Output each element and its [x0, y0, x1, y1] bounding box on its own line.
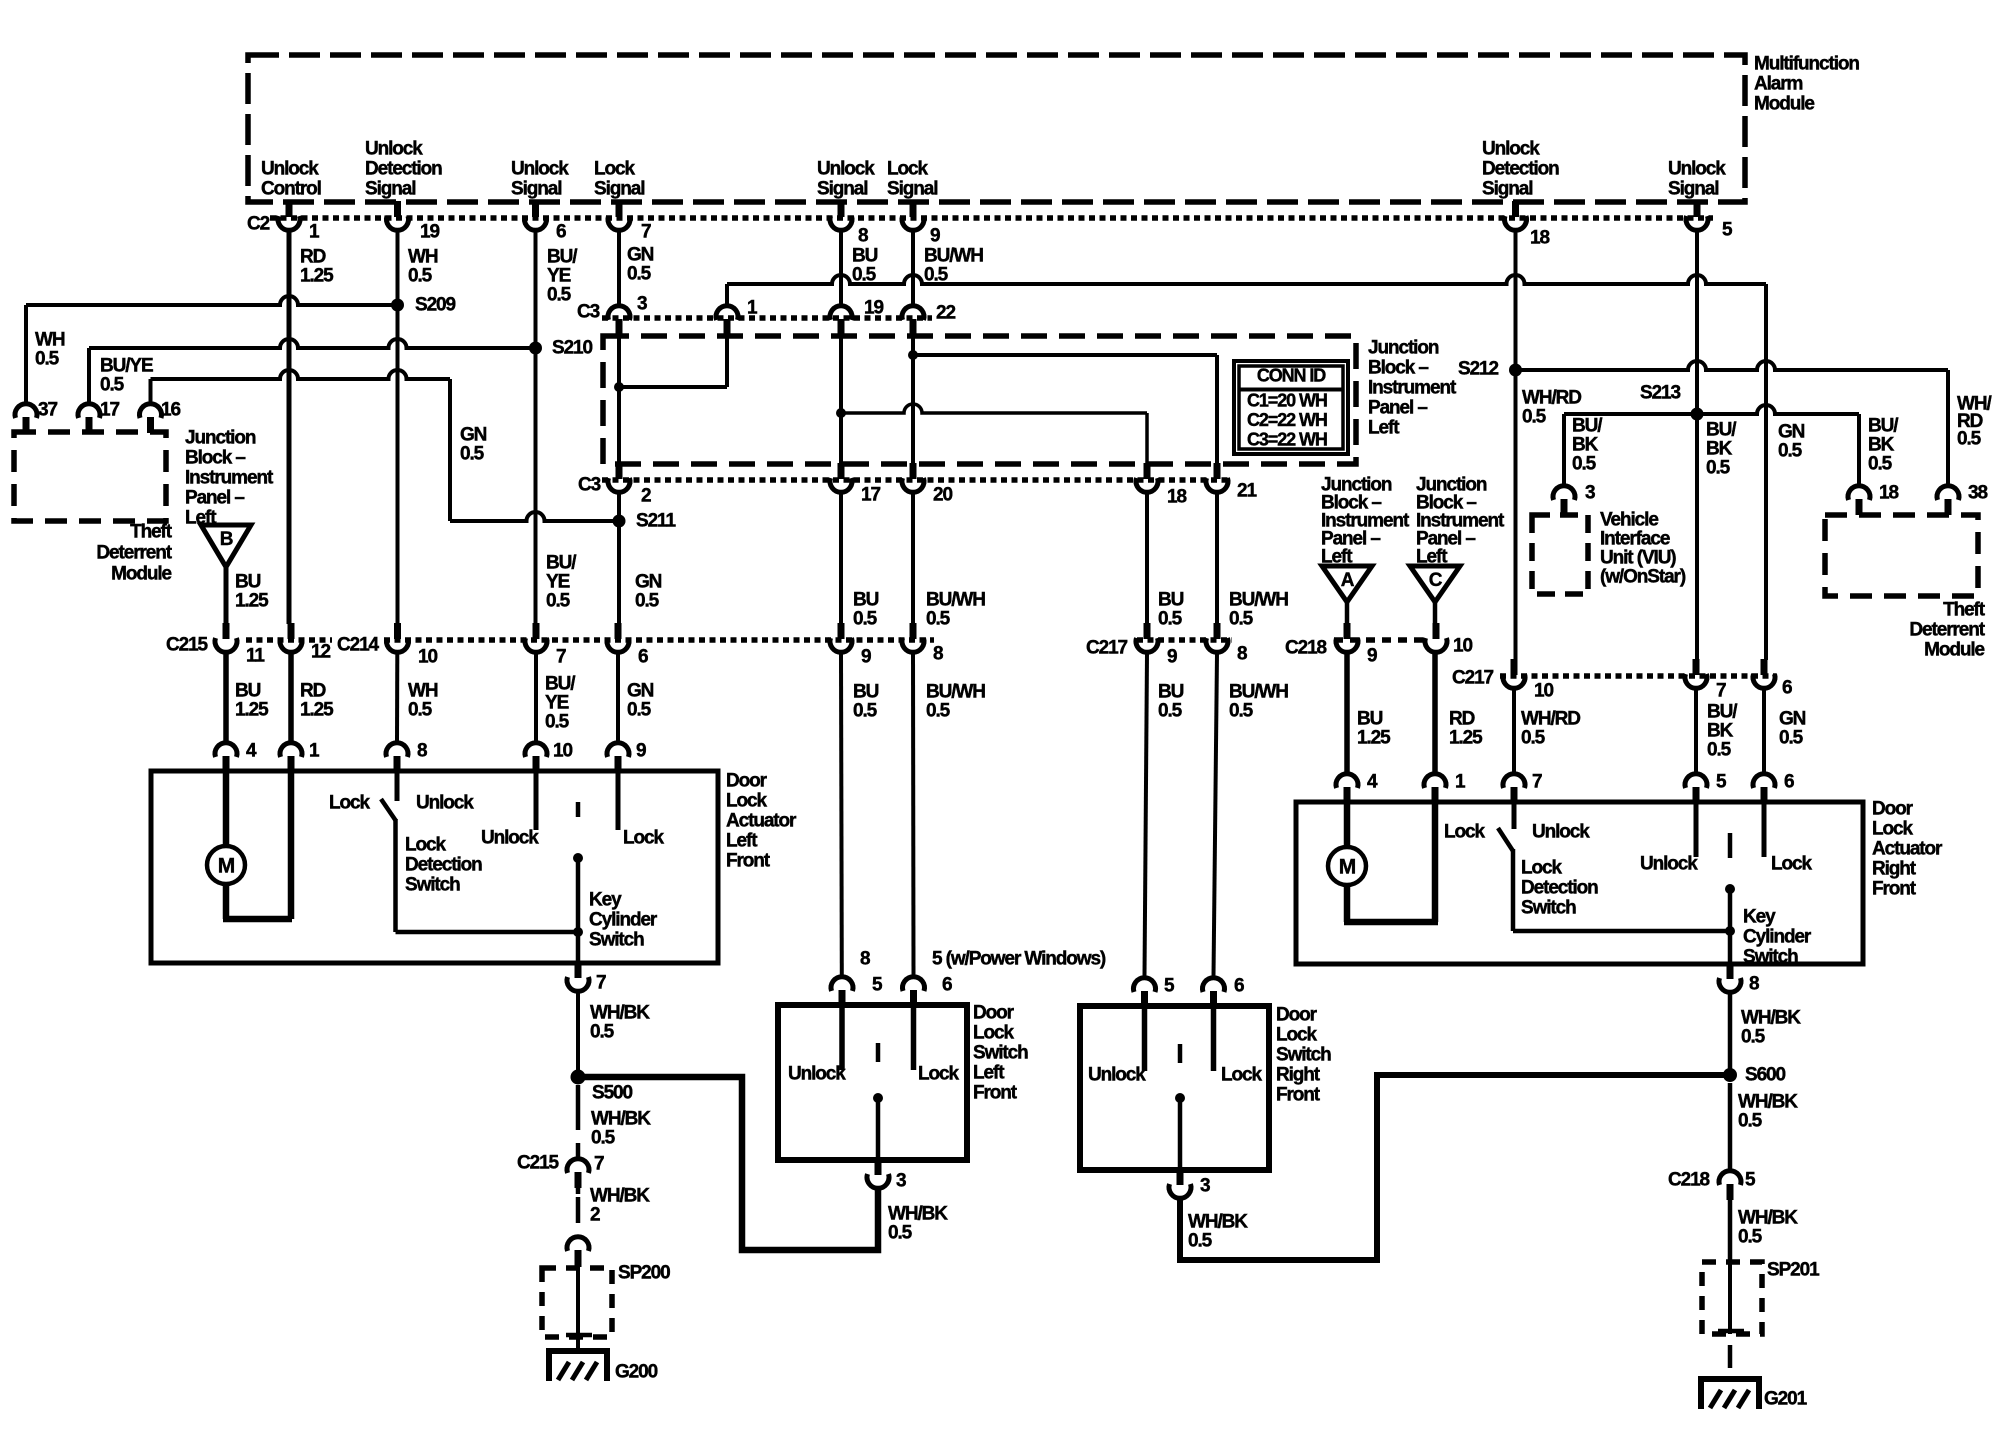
svg-text:1.25: 1.25: [1357, 728, 1391, 749]
connector Door Lock Switch Left pin 3 (below): [875, 1159, 882, 1175]
svg-text:Unlock: Unlock: [511, 159, 569, 180]
svg-text:Switch: Switch: [1276, 1045, 1331, 1066]
svg-text:6: 6: [1784, 772, 1794, 793]
connector Door Lock Actuator Right pin 5: [1685, 774, 1707, 788]
connector Door Lock Actuator Left pin 4: [215, 743, 237, 757]
svg-text:C: C: [1429, 570, 1443, 591]
svg-text:0.5: 0.5: [852, 265, 877, 286]
svg-text:GN: GN: [1778, 422, 1805, 443]
connector Door Lock Actuator Left pin 8: [386, 743, 408, 757]
lock stub switch left: [911, 1005, 917, 1070]
connector row C3 dotted line (upper): [602, 315, 932, 321]
svg-text:7: 7: [641, 222, 651, 243]
svg-text:Instrument: Instrument: [1368, 378, 1457, 399]
connector Door Lock Actuator Left pin 10: [525, 743, 547, 757]
connector C214 pin 8: [910, 623, 917, 639]
svg-text:C2=22 WH: C2=22 WH: [1247, 410, 1327, 430]
motor M left: [207, 846, 245, 884]
svg-text:Switch: Switch: [1521, 898, 1576, 919]
wire GN 0.5 to Theft Deterrent Module pin 16: [151, 370, 451, 379]
svg-text:1: 1: [309, 222, 320, 243]
svg-text:Lock: Lock: [1521, 858, 1562, 879]
svg-text:Instrument: Instrument: [185, 468, 274, 489]
svg-text:10: 10: [1453, 636, 1472, 657]
svg-text:BU/: BU/: [546, 553, 577, 574]
connector C214 pin 7: [533, 623, 540, 639]
wire dashed WH/BK 2 below C215 pin 7: [576, 1188, 581, 1194]
wire RD 1.25 from C215 pin 12 to actuator pin 1: [288, 654, 294, 741]
connector Door Lock Actuator Left pin 1: [280, 743, 302, 757]
svg-text:(w/OnStar): (w/OnStar): [1600, 567, 1686, 588]
switch left arm: [876, 1043, 881, 1062]
wire from S210 to Theft Deterrent Module pin 17: [89, 339, 536, 348]
svg-text:Lock: Lock: [329, 793, 370, 814]
wire inside junction block pin22 to pin 21: [913, 353, 1217, 357]
svg-text:Lock: Lock: [726, 791, 767, 812]
connector row C3 dotted line (lower): [602, 477, 1232, 483]
connector Door Lock Switch Left pin 5: [831, 977, 853, 991]
svg-text:0.5: 0.5: [1521, 728, 1546, 749]
svg-text:Left: Left: [973, 1063, 1005, 1084]
wire RD 1.25 from C2 pin 1: [287, 231, 292, 624]
connector Vehicle Interface Unit pin 3: [1553, 486, 1575, 500]
svg-text:Module: Module: [1924, 640, 1984, 661]
Door Lock Switch Right Front box: [1080, 1006, 1269, 1170]
svg-text:Lock: Lock: [1771, 854, 1812, 875]
junction dot inside junction block (pin3/pin1): [614, 382, 624, 392]
wire RD 1.25 from C218 pin 10 to actuator right pin 1: [1432, 654, 1438, 772]
Door Lock Actuator Right Front box: [1296, 802, 1863, 964]
svg-text:0.5: 0.5: [1779, 728, 1804, 749]
connector Door Lock Actuator Right pin 7: [1503, 774, 1525, 788]
svg-text:M: M: [218, 855, 235, 878]
junction dot inside junction block (pin22): [908, 350, 918, 360]
connector C3 pin 3: [608, 306, 630, 320]
wire WH/BK 0.5 actuator right pin 8 to S600: [1728, 994, 1733, 1075]
svg-text:S600: S600: [1745, 1065, 1786, 1086]
svg-text:Control: Control: [261, 179, 321, 200]
svg-text:0.5: 0.5: [1868, 454, 1893, 475]
svg-text:WH/BK: WH/BK: [1741, 1008, 1801, 1029]
wire BU 1.25 from C215 pin 11 to actuator pin 4: [223, 654, 229, 741]
splice S600: [1723, 1068, 1737, 1082]
lock stub switch right: [1211, 1006, 1217, 1071]
svg-text:8: 8: [417, 741, 427, 762]
svg-text:A: A: [1341, 570, 1355, 591]
svg-text:0.5: 0.5: [1778, 441, 1803, 462]
svg-text:7: 7: [596, 973, 606, 994]
splice S212: [1509, 364, 1522, 377]
key cylinder switch right arm: [1728, 833, 1733, 858]
wire WH/BK 0.5 C218 pin 5 to SP201: [1728, 1200, 1733, 1262]
svg-text:BU: BU: [235, 681, 261, 702]
svg-text:0.5: 0.5: [635, 591, 660, 612]
splice tick SP200: [566, 1333, 592, 1338]
wire WH/BK 0.5 S600 to C218 pin 5: [1728, 1083, 1733, 1169]
svg-text:Unlock: Unlock: [1532, 822, 1590, 843]
svg-text:2: 2: [590, 1205, 600, 1226]
svg-text:Signal: Signal: [511, 179, 561, 200]
svg-text:BK: BK: [1707, 721, 1734, 742]
connector C3 pin 20: [910, 463, 917, 479]
unlock stub switch right: [1142, 1006, 1148, 1071]
wire BU/BK 0.5 from S213 to VIU pin 3 and TDM pin 18: [1564, 405, 1859, 414]
wire GN 0.5 from C3 pin 2 to C214 pin 6: [617, 494, 621, 624]
svg-text:Door: Door: [973, 1003, 1015, 1024]
wire WH 0.5 from C2 pin 19: [396, 231, 400, 624]
wire BU/WH 0.5 from C214 pin 8 to switch left pin 6: [911, 654, 916, 975]
connector C217 pin 10 (right row): [1511, 659, 1518, 675]
connector C217 pin 7 (right row): [1693, 659, 1700, 675]
svg-text:Junction: Junction: [185, 428, 256, 449]
ground G201: [1701, 1379, 1759, 1409]
wire dashed WH/BK 0.5 below S500: [576, 1085, 581, 1130]
wire BU 0.5 from C2 pin 8: [839, 231, 843, 304]
connector C214 pin 9: [838, 623, 845, 639]
svg-text:BU: BU: [1158, 590, 1184, 611]
svg-text:Lock: Lock: [405, 835, 446, 856]
wire WH/RD 0.5 from C2 pin 18: [1514, 231, 1518, 660]
svg-text:WH: WH: [35, 330, 65, 351]
wire WH 0.5 from C214 pin 10 to actuator pin 8: [395, 654, 399, 741]
lock detection switch right stub: [1512, 802, 1517, 829]
connector C218 pin 5 (inline): [1719, 1171, 1741, 1185]
Door Lock Switch Left Front box: [778, 1005, 967, 1160]
connector C2 pin 8: [838, 201, 845, 217]
svg-text:0.5: 0.5: [1158, 701, 1183, 722]
svg-text:22: 22: [936, 303, 955, 324]
switch right arm: [1178, 1044, 1183, 1063]
svg-text:BU/: BU/: [1572, 416, 1603, 437]
wire inside junction block pin19 to pin 18: [841, 404, 1147, 413]
wire WH/BK 0.5 actuator left pin 7 to S500: [576, 993, 580, 1077]
svg-text:WH/BK: WH/BK: [1188, 1212, 1248, 1233]
svg-text:Left: Left: [1321, 547, 1353, 568]
svg-text:18: 18: [1530, 228, 1549, 249]
svg-text:Front: Front: [973, 1083, 1018, 1104]
svg-text:C3: C3: [577, 302, 600, 323]
connector row C215/C214 dotted line: [246, 637, 332, 643]
svg-text:G200: G200: [615, 1362, 658, 1383]
svg-text:WH: WH: [408, 681, 438, 702]
lock detection switch right blade: [1498, 828, 1513, 851]
svg-text:GN: GN: [635, 572, 662, 593]
svg-text:C215: C215: [517, 1153, 560, 1174]
lock detection switch left blade: [381, 799, 396, 821]
wire BU 0.5 from C214 pin 9 to switch left pin 5: [839, 654, 844, 975]
svg-text:0.5: 0.5: [924, 265, 949, 286]
svg-text:Unit (VIU): Unit (VIU): [1600, 548, 1676, 569]
svg-text:Unlock: Unlock: [261, 159, 319, 180]
wire from S209 to Theft Deterrent Module pin 37: [26, 296, 398, 305]
svg-text:10: 10: [418, 647, 437, 668]
svg-text:C1=20 WH: C1=20 WH: [1247, 391, 1327, 411]
svg-text:BK: BK: [1706, 439, 1733, 460]
svg-text:0.5: 0.5: [408, 700, 433, 721]
junction block triangle A: [1322, 566, 1372, 602]
connector C215 pin 11: [223, 623, 230, 639]
connector Theft Deterrent Module pin 17: [78, 404, 100, 418]
svg-text:5: 5: [872, 975, 883, 996]
svg-text:8: 8: [858, 226, 868, 247]
Door Lock Actuator Left Front box: [151, 771, 718, 963]
svg-text:BU: BU: [1357, 709, 1383, 730]
svg-text:Front: Front: [726, 851, 771, 872]
connector Theft Deterrent Module pin 16: [140, 404, 162, 418]
svg-text:11: 11: [246, 646, 265, 667]
wire dashed below SP201: [1728, 1345, 1733, 1368]
svg-text:3: 3: [1585, 483, 1595, 504]
lock detection switch left stub: [395, 771, 400, 801]
svg-text:1.25: 1.25: [300, 700, 334, 721]
svg-text:1.25: 1.25: [300, 266, 334, 287]
svg-text:GN: GN: [1779, 709, 1806, 730]
Multifunction Alarm Module box: [248, 55, 1745, 202]
wire BU 0.5 from C3 pin 18 to C217 pin 9: [1145, 494, 1149, 624]
svg-text:16: 16: [161, 400, 180, 421]
junction dot inside junction block (pin19): [836, 408, 846, 418]
svg-text:8: 8: [1237, 644, 1247, 665]
svg-text:BU/: BU/: [1868, 416, 1899, 437]
svg-text:4: 4: [1367, 772, 1378, 793]
svg-text:0.5: 0.5: [100, 375, 125, 396]
svg-text:5: 5: [1745, 1170, 1756, 1191]
svg-text:Unlock: Unlock: [416, 793, 474, 814]
svg-text:Theft: Theft: [130, 522, 173, 543]
wire BU/WH 0.5 from C3 pin 20 to C214 pin 8: [911, 494, 915, 624]
connector C3 pin 18: [1144, 463, 1151, 479]
connector row C218 dotted line: [1334, 637, 1424, 643]
svg-text:3: 3: [1200, 1176, 1210, 1197]
svg-text:Theft: Theft: [1943, 600, 1986, 621]
connector C3 pin 22: [902, 306, 924, 320]
splice SP201 box: [1702, 1262, 1762, 1334]
svg-text:Switch: Switch: [589, 930, 644, 951]
svg-text:BU/WH: BU/WH: [926, 590, 985, 611]
svg-text:1: 1: [309, 741, 320, 762]
svg-text:0.5: 0.5: [1158, 609, 1183, 630]
svg-text:Lock: Lock: [1221, 1065, 1262, 1086]
svg-text:5 (w/Power Windows): 5 (w/Power Windows): [932, 949, 1106, 970]
connector Door Lock Actuator Left pin 7 (below): [575, 962, 582, 978]
svg-text:9: 9: [861, 647, 871, 668]
svg-text:19: 19: [864, 298, 883, 319]
svg-text:3: 3: [637, 294, 647, 315]
connector row C217 dotted line (left): [1137, 637, 1232, 643]
svg-text:BU/: BU/: [1707, 702, 1738, 723]
wire BU/WH 0.5 from C217 pin 8 to switch right pin 6: [1214, 654, 1218, 976]
svg-text:Lock: Lock: [1444, 822, 1485, 843]
connector Door Lock Switch Right pin 3 (below): [1177, 1169, 1184, 1185]
svg-text:BU: BU: [853, 590, 879, 611]
svg-text:C2: C2: [247, 214, 270, 235]
connector Theft Deterrent Module pin 37: [15, 404, 37, 418]
svg-text:C3: C3: [578, 475, 601, 496]
junction block triangle C: [1410, 566, 1460, 602]
svg-text:0.5: 0.5: [853, 609, 878, 630]
junction block triangle B: [201, 525, 251, 567]
svg-text:18: 18: [1167, 487, 1186, 508]
svg-text:0.5: 0.5: [460, 444, 485, 465]
connector C214 pin 6: [615, 623, 622, 639]
svg-text:C218: C218: [1668, 1170, 1710, 1191]
svg-text:Module: Module: [1754, 94, 1814, 115]
svg-text:GN: GN: [627, 245, 654, 266]
svg-text:2: 2: [641, 486, 651, 507]
svg-text:Alarm: Alarm: [1754, 74, 1803, 95]
svg-text:YE: YE: [546, 572, 570, 593]
svg-text:Front: Front: [1276, 1085, 1321, 1106]
CONN ID table: [1234, 361, 1348, 454]
svg-text:C218: C218: [1285, 638, 1327, 659]
connector Theft Deterrent Module right pin 38: [1937, 486, 1959, 500]
connector C2 pin 7: [616, 201, 623, 217]
unlock stub right actuator: [1694, 802, 1699, 857]
svg-text:Lock: Lock: [918, 1064, 959, 1085]
svg-text:CONN ID: CONN ID: [1257, 366, 1326, 386]
connector C218 pin 10: [1433, 623, 1440, 639]
wire door lock switch right pin 3 to S600 (thick): [1180, 1075, 1730, 1260]
svg-text:0.5: 0.5: [1188, 1231, 1213, 1252]
svg-text:BU/WH: BU/WH: [1229, 682, 1288, 703]
svg-text:21: 21: [1237, 481, 1257, 502]
svg-text:GN: GN: [460, 425, 487, 446]
svg-text:0.5: 0.5: [1738, 1227, 1763, 1248]
connector C3 pin 21: [1214, 463, 1221, 479]
svg-text:10: 10: [1534, 681, 1553, 702]
svg-text:Switch: Switch: [973, 1043, 1028, 1064]
svg-text:0.5: 0.5: [1707, 740, 1732, 761]
svg-text:Left: Left: [726, 831, 758, 852]
splice S500: [571, 1070, 586, 1085]
svg-text:YE: YE: [545, 693, 569, 714]
svg-text:GN: GN: [627, 681, 654, 702]
unlock stub switch left: [839, 1005, 845, 1070]
svg-text:SP201: SP201: [1767, 1260, 1820, 1281]
svg-text:YE: YE: [547, 266, 571, 287]
svg-text:5: 5: [1164, 976, 1175, 997]
svg-text:7: 7: [556, 647, 566, 668]
svg-text:0.5: 0.5: [888, 1223, 913, 1244]
svg-text:C217: C217: [1452, 668, 1494, 689]
connector Door Lock Actuator Right pin 4: [1336, 774, 1358, 788]
svg-text:WH/BK: WH/BK: [1738, 1208, 1798, 1229]
connector row C217 dotted line (right): [1500, 673, 1776, 679]
svg-text:WH/RD: WH/RD: [1522, 388, 1581, 409]
svg-text:Right: Right: [1872, 859, 1917, 880]
unlock stub left actuator: [534, 771, 539, 830]
svg-text:C217: C217: [1086, 638, 1128, 659]
wire BU 1.25 from triangle B to C215 pin 11: [224, 567, 229, 624]
svg-text:7: 7: [1532, 772, 1542, 793]
svg-text:Door: Door: [1872, 799, 1914, 820]
svg-text:Signal: Signal: [594, 179, 644, 200]
svg-text:S500: S500: [592, 1083, 633, 1104]
svg-text:Key: Key: [589, 890, 622, 911]
svg-text:20: 20: [933, 485, 952, 506]
svg-text:Interface: Interface: [1600, 529, 1670, 550]
svg-text:BU: BU: [852, 246, 878, 267]
svg-text:Detection: Detection: [1482, 159, 1559, 180]
svg-text:Deterrent: Deterrent: [1909, 620, 1985, 641]
Vehicle Interface Unit box: [1532, 515, 1588, 594]
svg-text:0.5: 0.5: [1522, 407, 1547, 428]
wire motor loop left: [223, 771, 230, 847]
svg-text:8: 8: [1749, 974, 1759, 995]
svg-text:0.5: 0.5: [1572, 454, 1597, 475]
connector C217 pin 8 (left row): [1214, 623, 1221, 639]
svg-text:0.5: 0.5: [590, 1022, 615, 1043]
wire BU/YE 0.5 from C214 pin 7 to actuator pin 10: [534, 654, 538, 741]
wire S500 to door lock switch left pin 3 (thick): [578, 1077, 878, 1250]
svg-text:Detection: Detection: [1521, 878, 1598, 899]
svg-text:RD: RD: [300, 247, 326, 268]
svg-text:WH/BK: WH/BK: [1738, 1092, 1798, 1113]
junction dot key cylinder right: [1725, 926, 1735, 936]
svg-text:Lock: Lock: [973, 1023, 1014, 1044]
wire inside junction block from C3 pin 3: [617, 334, 621, 464]
svg-text:1.25: 1.25: [1449, 728, 1483, 749]
Theft Deterrent Module box (right): [1825, 515, 1978, 596]
svg-text:9: 9: [1367, 646, 1377, 667]
splice S213: [1691, 408, 1704, 421]
svg-text:S210: S210: [552, 338, 593, 359]
svg-text:Detection: Detection: [365, 159, 442, 180]
svg-text:Switch: Switch: [1743, 947, 1798, 968]
connector C2 pin 18: [1512, 201, 1519, 217]
svg-text:10: 10: [553, 741, 572, 762]
wire inside junction block from C3 pin 22: [911, 334, 915, 464]
svg-text:0.5: 0.5: [853, 701, 878, 722]
Junction Block - Instrument Panel - Left box (center): [603, 336, 1356, 464]
svg-text:0.5: 0.5: [1957, 429, 1982, 450]
svg-text:Unlock: Unlock: [1640, 854, 1698, 875]
svg-text:Left: Left: [1368, 418, 1400, 439]
svg-text:Block –: Block –: [185, 448, 245, 469]
connector C215 pin 12: [288, 623, 295, 639]
svg-text:0.5: 0.5: [591, 1128, 616, 1149]
svg-text:M: M: [1339, 856, 1356, 879]
svg-text:1: 1: [747, 298, 758, 319]
svg-text:Lock: Lock: [887, 159, 928, 180]
wire inside junction block from C3 pin 19: [839, 334, 843, 464]
connector Theft Deterrent Module right pin 18: [1848, 486, 1870, 500]
svg-text:12: 12: [311, 642, 330, 663]
connector C2 pin 1: [286, 201, 293, 217]
connector Door Lock Switch Right pin 5: [1134, 978, 1156, 992]
svg-text:Right: Right: [1276, 1065, 1321, 1086]
svg-text:0.5: 0.5: [1738, 1111, 1763, 1132]
svg-text:9: 9: [636, 741, 646, 762]
svg-text:1.25: 1.25: [235, 700, 269, 721]
connector Door Lock Actuator Right pin 8 (below): [1727, 963, 1734, 979]
wire BU/YE 0.5 from C2 pin 6: [534, 231, 538, 624]
svg-text:0.5: 0.5: [1706, 458, 1731, 479]
key cylinder switch left arm: [576, 802, 581, 817]
svg-text:WH/RD: WH/RD: [1521, 709, 1580, 730]
svg-text:19: 19: [420, 222, 439, 243]
svg-text:6: 6: [556, 222, 566, 243]
svg-text:BU/: BU/: [545, 674, 576, 695]
motor M right: [1328, 847, 1366, 885]
svg-text:0.5: 0.5: [35, 349, 60, 370]
svg-text:BU/: BU/: [547, 247, 578, 268]
svg-text:Unlock: Unlock: [365, 139, 423, 160]
svg-text:0.5: 0.5: [926, 609, 951, 630]
svg-text:BU/WH: BU/WH: [924, 246, 983, 267]
wire from triangle A to C218 pin 9: [1345, 602, 1350, 624]
svg-text:5: 5: [1716, 772, 1727, 793]
